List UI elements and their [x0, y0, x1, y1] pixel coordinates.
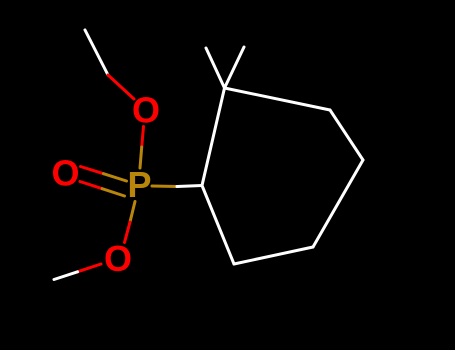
methyl stub on C2 up-left [206, 48, 225, 88]
svg-text:P: P [127, 164, 151, 205]
wire O1 to P, O half red [142, 127, 144, 148]
wire methyl-C to O1, O half red [108, 75, 134, 99]
wire O3 to methyl-C, O half red [78, 264, 102, 272]
svg-text:O: O [51, 153, 79, 194]
wire O3 to methyl-C, C half white [54, 272, 78, 280]
svg-text:O: O [132, 90, 160, 131]
ring bond C3-C4 [330, 110, 363, 160]
wire methyl-C to O1 (top methoxy), C half white [85, 30, 108, 75]
ring bond C2-C3 [225, 88, 331, 110]
double bond P=O2 lower line, P half olive [102, 189, 124, 196]
methyl stub on C2 up-right [225, 47, 245, 88]
ring bond C5-C6 [234, 247, 313, 264]
double bond P=O2 upper line, P half olive [104, 174, 127, 181]
ring bond C4-C5 [313, 160, 363, 247]
svg-text:O: O [104, 238, 132, 279]
wire P to ring C1, P half olive [152, 185, 177, 189]
wire P to O3, O half red [125, 222, 131, 243]
ring bond C6-C1 [202, 186, 234, 265]
double bond P=O2 upper line, O half red [81, 167, 104, 174]
double bond P=O2 lower line, O half red [80, 182, 102, 189]
wire P to O3 (bottom methoxy), P half olive [130, 202, 135, 223]
ring bond C1-C2 [202, 88, 225, 186]
wire O1 to P, P half olive [140, 147, 142, 168]
wire P to ring C1, C half white [177, 186, 202, 187]
